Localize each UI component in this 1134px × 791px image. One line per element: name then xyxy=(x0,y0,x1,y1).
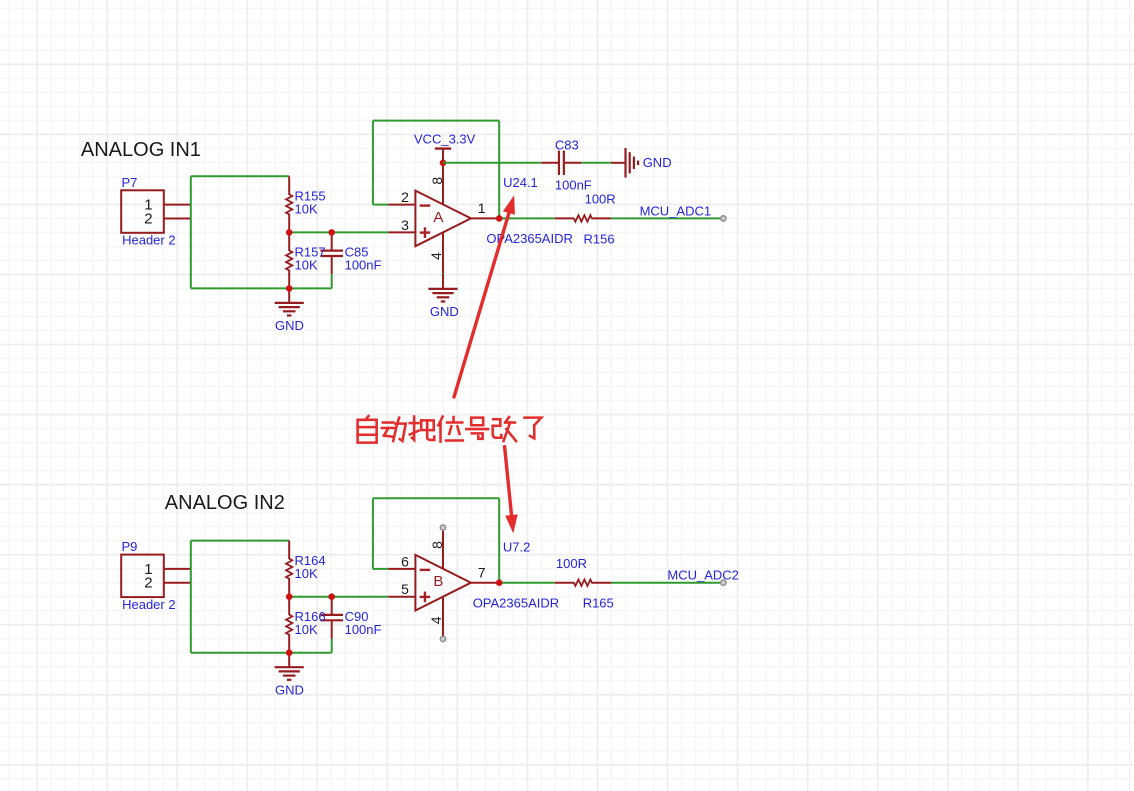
svg-text:2: 2 xyxy=(144,210,152,227)
svg-text:5: 5 xyxy=(401,581,409,597)
svg-text:2: 2 xyxy=(144,575,152,592)
svg-text:100nF: 100nF xyxy=(345,258,382,273)
svg-text:GND: GND xyxy=(275,318,304,333)
svg-text:B: B xyxy=(433,573,443,590)
svg-text:OPA2365AIDR: OPA2365AIDR xyxy=(473,595,559,610)
svg-text:MCU_ADC2: MCU_ADC2 xyxy=(667,568,739,583)
svg-text:7: 7 xyxy=(478,564,486,580)
svg-text:Header 2: Header 2 xyxy=(122,597,175,612)
svg-text:8: 8 xyxy=(429,177,445,185)
svg-text:GND: GND xyxy=(643,155,672,170)
svg-text:10K: 10K xyxy=(295,202,318,217)
svg-text:U7.2: U7.2 xyxy=(503,540,530,555)
svg-text:6: 6 xyxy=(401,554,409,570)
svg-text:10K: 10K xyxy=(295,566,318,581)
svg-text:ANALOG IN2: ANALOG IN2 xyxy=(165,492,285,514)
svg-text:10K: 10K xyxy=(295,258,318,273)
svg-text:100R: 100R xyxy=(585,191,616,206)
svg-text:2: 2 xyxy=(401,189,409,205)
svg-text:R165: R165 xyxy=(583,595,614,610)
svg-text:100nF: 100nF xyxy=(555,178,592,193)
svg-text:Header 2: Header 2 xyxy=(122,233,175,248)
svg-text:C83: C83 xyxy=(555,137,579,152)
svg-text:10K: 10K xyxy=(295,622,318,637)
svg-text:100R: 100R xyxy=(556,556,587,571)
svg-text:VCC_3.3V: VCC_3.3V xyxy=(414,132,476,147)
svg-text:4: 4 xyxy=(428,252,444,260)
svg-text:3: 3 xyxy=(401,217,409,233)
svg-text:8: 8 xyxy=(429,541,445,549)
svg-text:GND: GND xyxy=(430,304,459,319)
svg-text:P9: P9 xyxy=(122,539,138,554)
svg-text:1: 1 xyxy=(478,200,486,216)
svg-text:GND: GND xyxy=(275,682,304,697)
svg-text:A: A xyxy=(433,209,443,226)
svg-text:R156: R156 xyxy=(584,231,615,246)
svg-text:P7: P7 xyxy=(122,175,138,190)
svg-text:U24.1: U24.1 xyxy=(503,175,538,190)
svg-text:ANALOG IN1: ANALOG IN1 xyxy=(81,139,201,161)
svg-text:MCU_ADC1: MCU_ADC1 xyxy=(640,203,712,218)
svg-text:100nF: 100nF xyxy=(345,622,382,637)
svg-text:4: 4 xyxy=(428,616,444,624)
